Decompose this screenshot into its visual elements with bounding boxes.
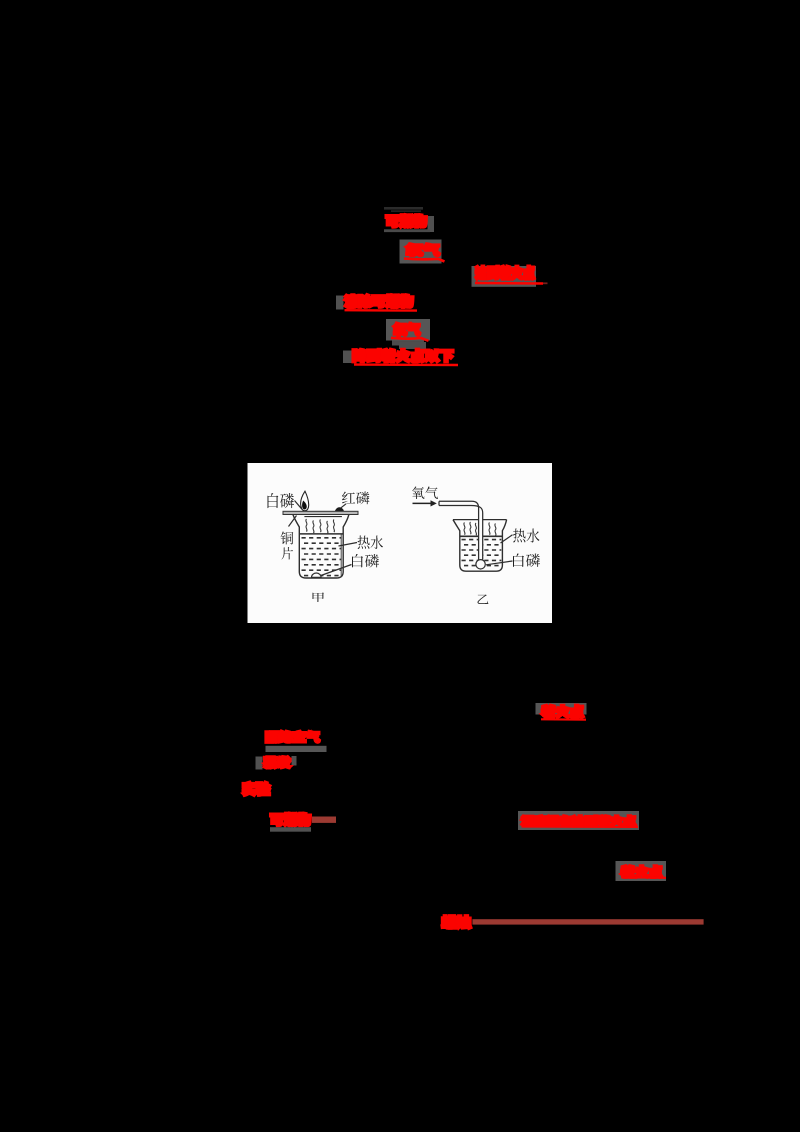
gray halo answer 5 <box>386 319 430 346</box>
caption 乙 <box>478 595 489 604</box>
label 白磷 乙 <box>513 554 540 568</box>
red answer 5: 氧气 <box>394 323 420 335</box>
beaker 乙 outline <box>453 520 507 572</box>
flame on copper sheet <box>301 491 309 511</box>
red answer 8: 隔绝空气 <box>266 731 319 742</box>
red underline 4 <box>345 309 418 312</box>
label 热水 甲 <box>358 535 383 549</box>
gray halo answer 4 <box>336 296 344 310</box>
glass tube <box>439 501 483 559</box>
inner wall shading line 甲 <box>340 535 342 577</box>
leader 热水→water 乙 <box>501 535 513 543</box>
white phosphorus lump 甲 <box>312 573 322 577</box>
beaker 乙 rim top line <box>453 519 507 521</box>
maroon continuation line 11 <box>312 817 336 823</box>
white phosphorus lump 乙 <box>476 560 485 569</box>
red answer 9: 蒸发 <box>264 757 290 768</box>
beaker 甲 inner rim line <box>304 516 342 518</box>
leader 白磷→lump bottom <box>320 565 352 577</box>
label 红磷 <box>342 492 369 505</box>
red underline 13 <box>621 876 666 879</box>
copper sheet <box>283 511 358 514</box>
red underline 7 <box>541 718 586 720</box>
leader 白磷→flame <box>295 501 303 510</box>
gray halo answer 9 <box>256 756 297 770</box>
red answer 11: 可燃物 <box>271 813 311 826</box>
red answer 2: 氧气 <box>406 244 439 256</box>
label 白磷 (top) <box>267 493 293 508</box>
red underline 6 <box>354 363 458 366</box>
water surface 乙 <box>460 535 503 537</box>
leader 热水→water 甲 <box>339 543 358 547</box>
maroon answer line 14 <box>472 919 703 924</box>
red underline swoosh 5 <box>391 338 429 341</box>
red underline 3 <box>475 282 543 285</box>
hot water dashes 甲 <box>302 538 342 576</box>
gray halo answer 6 <box>343 342 426 363</box>
red underline swoosh 2 <box>404 259 445 262</box>
water surface 甲 <box>299 533 343 535</box>
faint smudge above answer 1 <box>384 207 423 212</box>
red answer 14: 蜡烛 <box>442 916 471 929</box>
label 铜片 (vertical) <box>281 531 294 544</box>
steam squiggles 乙 <box>464 522 496 536</box>
gray halo answer 2 <box>400 240 442 264</box>
steam squiggles 甲 <box>306 519 335 534</box>
label 氧气 乙 <box>412 487 438 499</box>
red answer 4: 清除可燃物 <box>345 295 413 308</box>
gray strip under answer 11 <box>270 827 311 832</box>
label 白磷 (lower) 甲 <box>352 554 379 568</box>
beaker 甲 outline <box>293 515 349 578</box>
gray halo answer 7 <box>536 703 587 715</box>
oxygen arrow <box>413 500 437 506</box>
white figure panel <box>248 463 553 623</box>
label 热水 乙 <box>513 529 540 543</box>
red answer 10: 实验 <box>243 782 270 795</box>
red answer 6: 降到着火点以下 <box>353 349 453 362</box>
gray halo answer 13 <box>616 861 667 881</box>
leader 铜片→sheet <box>289 516 297 527</box>
red answer 3: 达到着火点 <box>476 266 535 279</box>
red answer 7: 着火点 <box>542 705 584 717</box>
leader 红磷→lump <box>341 504 347 508</box>
gray halo answer 8 <box>266 746 327 752</box>
gray halo answer 3 <box>472 266 537 287</box>
gray halo answer 12 <box>518 811 639 830</box>
hot water dashes 乙 <box>462 540 502 566</box>
gray halo answer 1 <box>384 216 434 232</box>
caption 甲 <box>313 592 324 602</box>
red answer 13: 着火点 <box>621 866 662 878</box>
red phosphorus lump on sheet <box>335 507 344 511</box>
red answer 12: 温度没有达到着火点 <box>522 816 636 826</box>
red answer 1: 可燃物 <box>386 215 426 228</box>
leader 白磷→lump 乙 <box>486 561 513 565</box>
red underline 12 <box>522 826 639 828</box>
